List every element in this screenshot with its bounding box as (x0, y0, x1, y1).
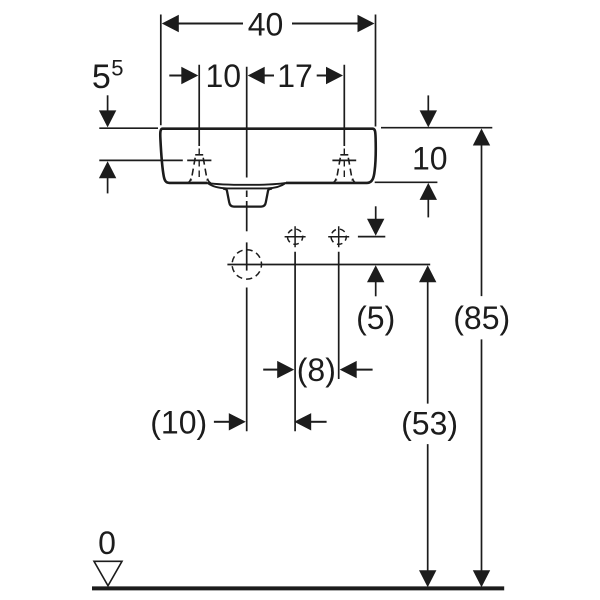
dim 5 reference line (358, 236, 385, 238)
dim 10 bottom right arrowhead (294, 413, 311, 430)
dim 85 upper line (481, 145, 483, 296)
dim 10 right down arrowhead (420, 110, 437, 127)
dim 53 upper line (427, 282, 429, 404)
dim 55 top reference line (99, 127, 158, 129)
dim 55 up arrowhead (99, 161, 116, 178)
dim 55 bottom reference line (99, 159, 183, 161)
dim 10 bottom left arrowhead (229, 413, 246, 430)
dim 85 down arrowhead (473, 570, 490, 587)
dim 10 bottom left arrow tail (214, 421, 230, 423)
dim 8 left arrowhead (277, 361, 294, 378)
drain stub (223, 189, 272, 207)
ground line (92, 586, 504, 590)
svg-text:40: 40 (248, 6, 284, 42)
dim 55 down arrow tail (107, 95, 109, 111)
dim 10 right top reference line (381, 127, 492, 129)
tap hole left centerline dashes (198, 149, 200, 178)
svg-text:(85): (85) (453, 300, 510, 336)
centerline dash at drain (246, 191, 248, 198)
dim 17 right extension line (343, 65, 345, 146)
trap dashed circle (232, 250, 261, 279)
hole B dashed circle (331, 229, 346, 244)
dim 40 line left segment (178, 23, 243, 25)
tap hole left dashed outline (195, 154, 203, 156)
dim 40 left arrowhead (162, 15, 179, 32)
dim 17 left arrowhead (248, 67, 265, 84)
tap hole right bottom flares (333, 179, 356, 183)
trap level line (227, 264, 430, 266)
tap hole left bottom flares (188, 179, 211, 183)
basin outline (160, 129, 376, 183)
dim 17 right arrowhead (326, 67, 343, 84)
svg-text:5: 5 (111, 56, 123, 81)
dim 40 line right segment (292, 23, 358, 25)
dim 40 right arrowhead (358, 15, 375, 32)
svg-text:(10): (10) (150, 404, 207, 440)
datum triangle (94, 561, 122, 586)
dim 10 right up arrowhead (420, 183, 437, 200)
svg-text:5: 5 (92, 58, 111, 96)
hole A cross (285, 226, 306, 247)
hole A dashed circle (288, 229, 303, 244)
dim 85 lower line (481, 339, 483, 571)
dim 10 arrow tail (169, 75, 182, 77)
svg-text:0: 0 (98, 525, 116, 561)
dim 17 left arrow tail (264, 75, 274, 77)
dim 5 down arrowhead (367, 219, 384, 236)
hole B vertical line (338, 252, 340, 379)
hole A vertical line (294, 252, 296, 431)
dim 10 extension line (198, 65, 200, 146)
dim 53 down arrowhead (419, 570, 436, 587)
svg-text:10: 10 (206, 58, 242, 94)
tap hole left cross line (187, 159, 211, 161)
dim 85 up arrowhead (473, 129, 490, 146)
basin bowl outer curve (207, 183, 286, 189)
dim 5 up arrow tail (375, 282, 377, 297)
dim 55 up arrow tail (107, 178, 109, 193)
dim 10 right bottom reference line (375, 181, 438, 183)
dim 5 down arrow tail (375, 206, 377, 219)
centerline segment below trap (246, 288, 248, 432)
dim 8 left arrow tail (263, 369, 277, 371)
basin bowl inner lens upper curve (207, 183, 286, 185)
svg-text:17: 17 (277, 58, 313, 94)
svg-text:(53): (53) (401, 406, 458, 442)
centerline segment above basin (246, 67, 248, 178)
tap hole right dashed outline (340, 154, 348, 156)
dim 17 right arrow tail (317, 75, 327, 77)
dim 55 down arrowhead (99, 110, 116, 127)
dim 8 right arrow tail (357, 369, 373, 371)
dim 10 arrowhead (181, 67, 198, 84)
tap hole right centerline dashes (343, 149, 345, 178)
dim 10 right up arrow tail (427, 200, 429, 218)
svg-text:(8): (8) (297, 352, 336, 388)
dim 53 lower line (427, 444, 429, 571)
tap hole right cross line (332, 159, 356, 161)
hole B cross (328, 226, 349, 247)
dim 10 bottom right arrow tail (311, 421, 327, 423)
dim 10 right down arrow tail (427, 95, 429, 111)
centerline segment through trap circle (246, 242, 248, 270)
dim 5 up arrowhead (367, 265, 384, 282)
centerline segment below drain (246, 201, 248, 231)
svg-text:(5): (5) (356, 300, 395, 336)
dim 40 left extension line (160, 15, 162, 126)
svg-text:10: 10 (412, 141, 448, 177)
dim 40 right extension line (375, 15, 377, 127)
dim 53 up arrowhead (419, 265, 436, 282)
dim 8 right arrowhead (340, 361, 357, 378)
